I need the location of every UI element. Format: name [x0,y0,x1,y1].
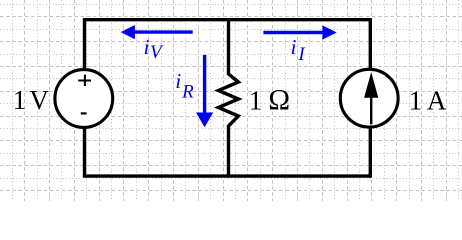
current arrow i_V head [121,25,135,39]
current arrow i_I head [322,25,336,39]
wire middle vertical lower [227,125,230,178]
wire left vertical lower [83,129,86,178]
wire top horizontal [85,18,371,21]
wire right vertical lower [369,128,372,178]
wire right vertical upper [369,18,372,69]
wire middle vertical upper [227,18,230,75]
current arrow i_R head [196,113,213,128]
current arrow i_I shaft [263,31,326,34]
current arrow i_V shaft [131,30,193,33]
wire left vertical upper [83,18,86,69]
svg-text:1 Ω: 1 Ω [249,85,290,117]
wire bottom horizontal [85,174,371,177]
current source internal arrowhead [364,72,378,98]
current arrow i_R shaft [203,55,206,117]
svg-text:1 A: 1 A [409,86,447,116]
voltage source minus sign [81,112,87,114]
current source internal arrow shaft [370,96,372,124]
voltage source V1 circle [55,70,113,128]
resistor R1 zigzag [218,74,238,126]
current source I1 circle [340,69,398,127]
voltage source plus sign [78,75,91,86]
svg-text:1 V: 1 V [13,85,50,115]
